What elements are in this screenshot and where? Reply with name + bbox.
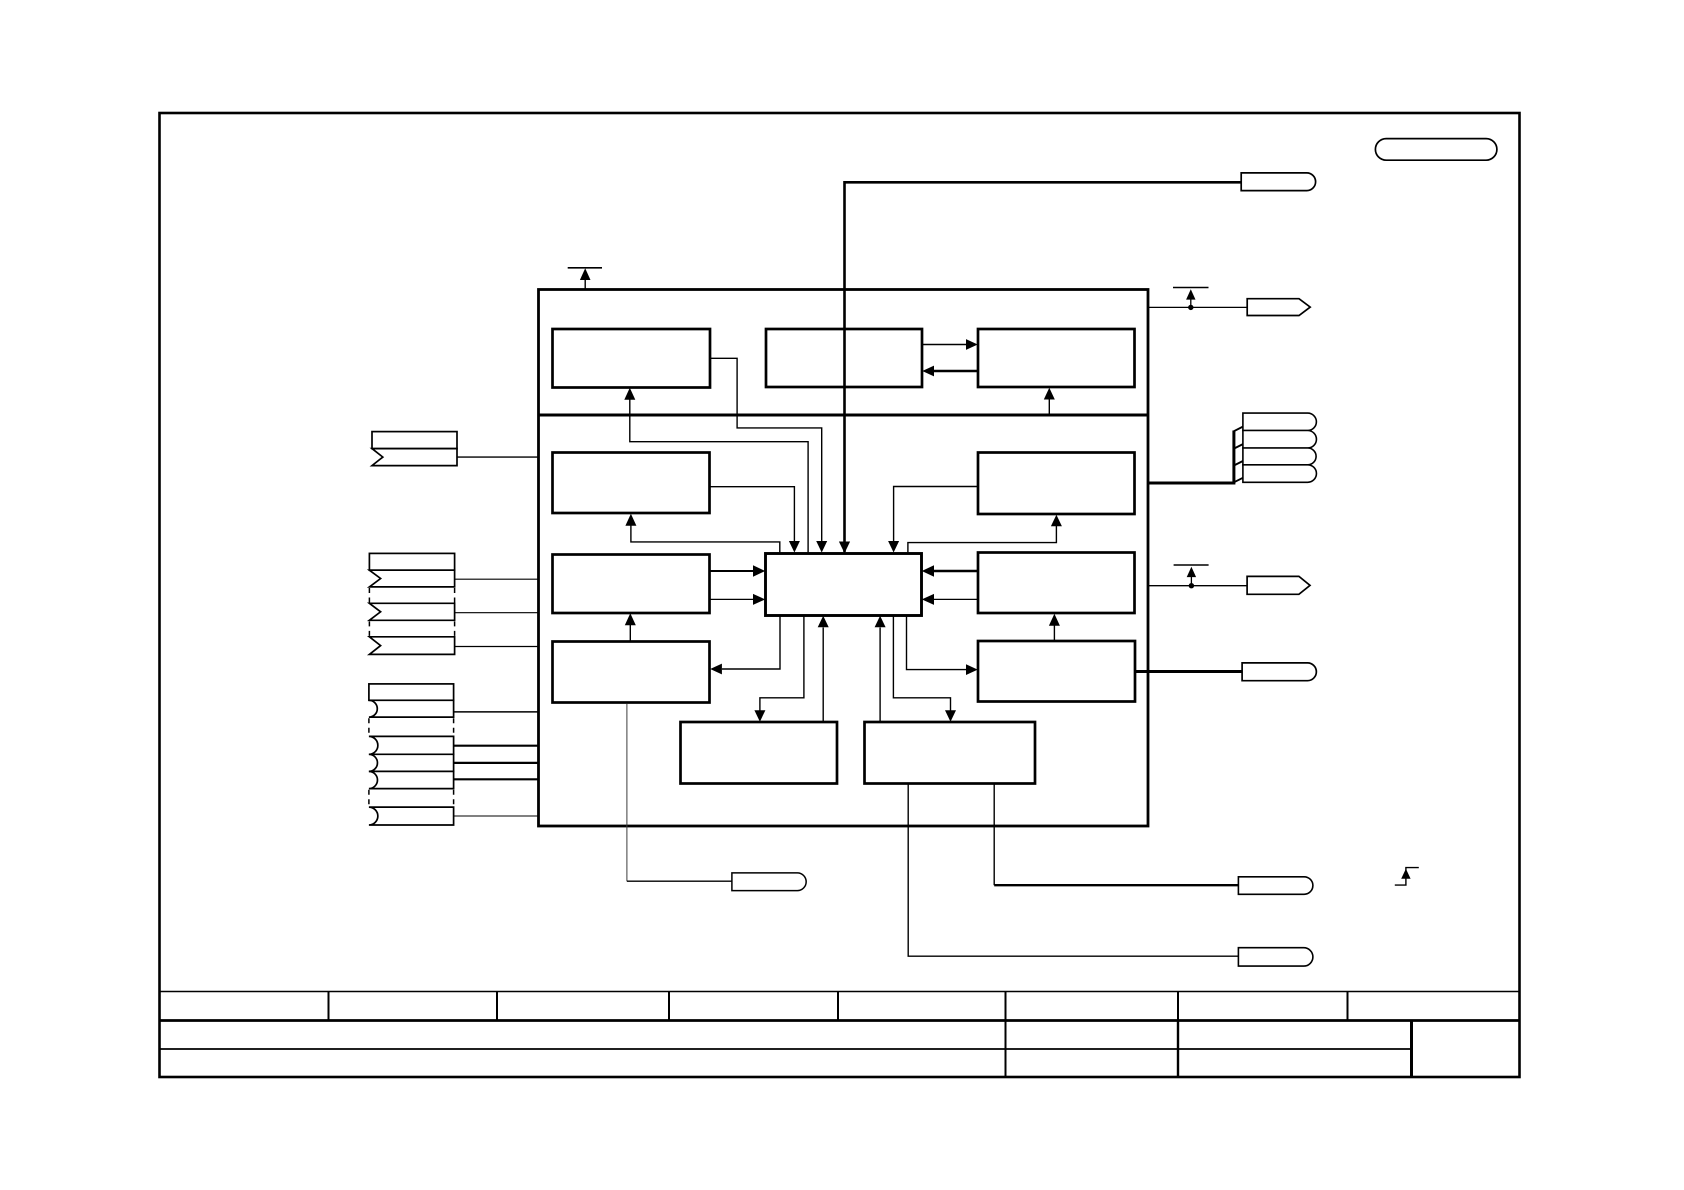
dashed link B-C left bbox=[368, 621, 370, 636]
arrowhead into B6 bottom bbox=[625, 613, 636, 625]
arrowhead into hub left upper bbox=[753, 565, 765, 577]
arrowhead net L4 into hub top bbox=[789, 541, 800, 553]
arrowhead into B9 right bbox=[710, 664, 722, 675]
arrowhead into B2 right bbox=[922, 366, 934, 377]
arrowhead into B3 left bbox=[966, 339, 978, 350]
block B6 bbox=[553, 555, 710, 614]
wire connector G to chip bbox=[454, 778, 539, 780]
wire B6 to hub upper bbox=[710, 570, 754, 572]
wire hub bottom to B12 top right bbox=[893, 616, 950, 711]
chip section divider bbox=[539, 414, 1149, 417]
arrowhead into hub right lower bbox=[922, 594, 934, 605]
wire net L1 hub top to B1 bottom bbox=[630, 399, 808, 553]
off-page connector B flag bbox=[369, 603, 454, 620]
port stadium B10 right bbox=[1242, 663, 1316, 681]
port stadium bottom right lower bbox=[1238, 948, 1313, 966]
title block row A divider 7 bbox=[1347, 992, 1349, 1021]
block B1 bbox=[553, 329, 711, 388]
bus entry diagonal 1 bbox=[1234, 427, 1243, 432]
wire net R2 hub top to B5 bottom bbox=[908, 526, 1057, 553]
title block lower divider 1 bbox=[1005, 1021, 1007, 1078]
bus wire to stadium stack bbox=[1148, 431, 1234, 484]
arrowhead net C into hub top bbox=[839, 542, 850, 554]
antenna symbol right 2 bbox=[1174, 565, 1209, 586]
off-page connector A top rect bbox=[369, 553, 454, 570]
wire B8 to hub upper bbox=[933, 570, 978, 572]
wire B2 to B3 bbox=[922, 344, 966, 346]
off-page connector C flag bbox=[369, 637, 454, 655]
wire connector H to chip bbox=[454, 815, 539, 817]
wire B12 bottom to lower right port bbox=[908, 784, 1238, 956]
wire net R3 divider to B3 bottom bbox=[1048, 399, 1050, 414]
title block row A divider 6 bbox=[1177, 992, 1179, 1021]
chip boundary bbox=[539, 290, 1149, 827]
block B2 bbox=[766, 329, 922, 387]
title block row A divider 1 bbox=[328, 992, 330, 1021]
wire B11 top to hub bottom bbox=[822, 628, 824, 723]
wire chip right to port 1 bbox=[1148, 306, 1247, 308]
wire B12 bottom to upper right port horizontal bbox=[994, 884, 1238, 886]
dashed link A-B left bbox=[368, 588, 370, 603]
block B8 bbox=[978, 553, 1135, 614]
analog connector D top rect bbox=[369, 684, 454, 700]
wire B8 to hub lower bbox=[933, 598, 978, 600]
stack stadium 1 bbox=[1243, 413, 1316, 430]
port stadium bottom right upper bbox=[1238, 877, 1313, 895]
wire B10 to B8 bbox=[1053, 625, 1055, 641]
junction dot on wire 2 bbox=[1189, 583, 1194, 588]
arrowhead into B4 bottom bbox=[625, 514, 636, 526]
block B3 bbox=[978, 329, 1135, 387]
wire B12 top to hub bottom bbox=[879, 628, 881, 723]
junction dot on wire 1 bbox=[1188, 305, 1193, 310]
wire connector C to chip bbox=[455, 646, 539, 648]
bus entry diagonal 4 bbox=[1234, 478, 1243, 483]
bus entry diagonal 2 bbox=[1234, 444, 1243, 449]
wire hub bottom to B10 left bbox=[907, 616, 967, 670]
wire hub bottom to B9 right bbox=[722, 616, 780, 669]
title block lower divider 2 bbox=[1177, 1021, 1179, 1078]
wire connector F to chip bbox=[454, 762, 539, 764]
wire net R1 B5 left stub to hub top bbox=[894, 487, 978, 542]
wire B9 to B6 bbox=[629, 625, 631, 642]
wire net C vertical trunk to hub with top run bbox=[845, 182, 1242, 552]
arrowhead net L2 into hub top bbox=[816, 541, 827, 553]
wire hub bottom to B11 top left bbox=[760, 616, 804, 711]
arrowhead into B12 top bbox=[945, 710, 956, 722]
wire B12 bottom to upper right port vertical bbox=[993, 784, 995, 885]
wire B10 right to port stadium bbox=[1135, 670, 1242, 673]
title block row line top bbox=[160, 991, 1520, 993]
rising edge clock symbol bbox=[1395, 868, 1419, 886]
arrowhead into B10 left bbox=[966, 664, 978, 675]
title block lower row line bbox=[160, 1048, 1412, 1050]
arrowhead into hub right upper bbox=[922, 565, 934, 577]
title block row A divider 2 bbox=[496, 992, 498, 1021]
wire B6 to hub lower bbox=[710, 598, 754, 600]
dashed link G-H left bbox=[368, 790, 370, 806]
block B7 hub bbox=[766, 554, 922, 616]
dashed link A-B right bbox=[454, 588, 456, 603]
title block sheet cell divider bbox=[1410, 1021, 1413, 1078]
title block thick separator bbox=[160, 1019, 1520, 1022]
wire net L2 B1 right stub to hub top bbox=[710, 358, 822, 541]
title block row A divider 5 bbox=[1005, 992, 1007, 1021]
wire net L4 B4 right stub to hub top bbox=[710, 487, 795, 542]
stack stadium 4 bbox=[1243, 465, 1317, 483]
arrowhead into hub bottom right bbox=[875, 616, 886, 628]
pointed port connector 1 bbox=[1247, 299, 1310, 316]
wire connector D to chip bbox=[454, 711, 539, 713]
antenna symbol right 1 bbox=[1173, 288, 1209, 308]
off-page connector 1 top rect bbox=[372, 432, 457, 449]
analog connector E band bbox=[369, 736, 454, 754]
wire to bottom center port bbox=[627, 880, 732, 882]
wire connector B to chip bbox=[455, 612, 539, 614]
block B5 bbox=[978, 453, 1135, 515]
standalone stadium top right bbox=[1375, 139, 1497, 161]
analog connector G band bbox=[369, 771, 454, 788]
dashed link D-E right bbox=[453, 718, 455, 735]
wire B3 to B2 bbox=[934, 370, 978, 372]
wire chip right to port 2 bbox=[1148, 585, 1247, 587]
frame border bbox=[160, 113, 1520, 1077]
arrowhead into B3 bottom bbox=[1044, 388, 1055, 400]
title block row A divider 3 bbox=[668, 992, 670, 1021]
off-page connector 1 flag bbox=[372, 449, 457, 466]
arrowhead into hub left lower bbox=[753, 594, 765, 605]
arrowhead into B8 bottom bbox=[1049, 614, 1060, 626]
arrowhead net R1 into hub top bbox=[888, 541, 899, 553]
arrowhead into B1 bottom bbox=[624, 388, 635, 400]
wire connector E to chip bbox=[454, 745, 539, 747]
antenna symbol above chip bbox=[568, 268, 602, 290]
analog connector F band bbox=[369, 754, 454, 771]
wire connector A to chip bbox=[455, 578, 539, 580]
arrowhead into B11 top bbox=[754, 710, 765, 722]
block B9 bbox=[553, 642, 710, 703]
pointed port connector 2 bbox=[1247, 576, 1310, 594]
wire connector 1 to chip bbox=[457, 456, 539, 458]
arrowhead into B5 bottom bbox=[1051, 515, 1062, 527]
dashed link G-H right bbox=[453, 790, 455, 806]
stack stadium 3 bbox=[1243, 448, 1316, 465]
off-page connector A flag bbox=[369, 570, 454, 587]
title block row A divider 4 bbox=[837, 992, 839, 1021]
block B10 bbox=[978, 641, 1135, 702]
stack stadium 2 bbox=[1243, 431, 1317, 449]
block B4 bbox=[553, 453, 710, 514]
dashed link B-C right bbox=[454, 621, 456, 636]
dashed link D-E left bbox=[368, 718, 370, 735]
wire B9 bottom down bbox=[626, 704, 628, 881]
bus entry diagonal 3 bbox=[1234, 461, 1243, 466]
block B12 bbox=[865, 722, 1036, 784]
port stadium top right of net C bbox=[1241, 173, 1315, 191]
block B11 bbox=[681, 722, 838, 784]
port stadium bottom center bbox=[732, 873, 806, 891]
analog connector H band bbox=[369, 807, 454, 825]
analog connector D band bbox=[369, 700, 454, 717]
wire net L3 hub top to B4 bottom bbox=[631, 525, 780, 553]
arrowhead into hub bottom left bbox=[818, 616, 829, 628]
